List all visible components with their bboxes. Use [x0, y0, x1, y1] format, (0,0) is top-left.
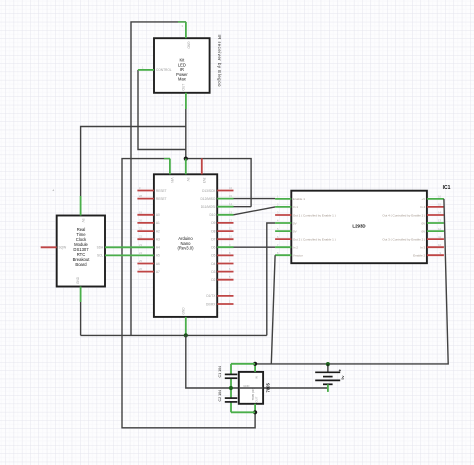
- svg-text:SCL: SCL: [97, 254, 103, 258]
- pin number labels (small, misc): [139, 24, 232, 304]
- svg-text:CONTROL: CONTROL: [156, 68, 172, 72]
- pin In 2: [275, 246, 291, 248]
- svg-text:A4: A4: [156, 246, 160, 250]
- wire L293D Vmotor to battery plus (slight slant): [271, 255, 275, 364]
- L293D right pins: [427, 199, 444, 255]
- node capacitor GND junction dot: [229, 386, 233, 390]
- pin D8: [217, 230, 233, 232]
- svg-text:A1: A1: [156, 221, 160, 225]
- pin 3V3 (Arduino top 3): [201, 158, 203, 174]
- svg-text:OUT: OUT: [255, 396, 259, 402]
- wire IR OUT down to node A: [185, 109, 187, 159]
- pin D4: [217, 263, 233, 265]
- wire 7805 OUT loop to Arduino VIN: [122, 159, 255, 428]
- svg-text:C2 104: C2 104: [218, 390, 222, 402]
- svg-text:Out 2 ( Controlled by Enable 1: Out 2 ( Controlled by Enable 1 ): [293, 237, 336, 241]
- L293D body: [291, 191, 427, 264]
- battery minus lead (green): [327, 384, 329, 392]
- Arduino right pins (unconnected red): [217, 191, 233, 305]
- svg-text:D13/SCK: D13/SCK: [202, 189, 216, 193]
- pin D1/TX: [217, 295, 233, 297]
- capacitor rail (green): [231, 364, 255, 413]
- pin In 1: [275, 206, 291, 208]
- pin RESET: [137, 190, 154, 192]
- svg-text:D6: D6: [211, 246, 215, 250]
- pin D9: [217, 222, 233, 224]
- svg-text:D1/TX: D1/TX: [206, 294, 216, 298]
- svg-text:3V3: 3V3: [202, 178, 206, 184]
- svg-text:D12/MISO: D12/MISO: [201, 197, 216, 201]
- pin A0: [137, 214, 154, 216]
- pin Out 4: [427, 214, 444, 216]
- wire IR GND to left bus: [131, 22, 186, 336]
- Arduino left pins: [137, 191, 154, 272]
- node GND junction dot: [184, 333, 188, 337]
- svg-text:GND: GND: [186, 42, 190, 50]
- pin D11/MOSI: [217, 206, 233, 208]
- svg-text:RESET: RESET: [156, 189, 167, 193]
- pin D5: [217, 254, 233, 256]
- pin D10: [217, 214, 233, 216]
- svg-text:IR receiver by Elegoo: IR receiver by Elegoo: [217, 35, 222, 88]
- L293D right pin labels: [382, 197, 426, 257]
- Arduino Nano body: [154, 174, 217, 317]
- battery plate long 1: [315, 371, 340, 373]
- svg-text:D4: D4: [211, 262, 215, 266]
- svg-text:OUT: OUT: [182, 84, 186, 91]
- wire green end at IR GND corner: [178, 21, 186, 23]
- battery plate long 2: [315, 379, 340, 381]
- Arduino left pin labels: [156, 189, 167, 274]
- pin +V: [427, 198, 444, 200]
- wire IR CONTROL down to junction: [138, 70, 186, 150]
- svg-text:Board: Board: [75, 262, 87, 267]
- pin D12/MISO: [217, 198, 233, 200]
- L293D left pin labels: [293, 197, 336, 257]
- pin D6: [217, 246, 233, 248]
- pin GND (Arduino bottom): [185, 317, 187, 336]
- pin RESET: [137, 198, 154, 200]
- wire RTC GND down to ground bus: [80, 302, 82, 335]
- svg-text:A2: A2: [156, 229, 160, 233]
- svg-text:A0: A0: [156, 213, 160, 217]
- pin 0V c: [427, 222, 444, 224]
- svg-text:In 3: In 3: [420, 246, 425, 250]
- svg-text:Max: Max: [178, 77, 186, 82]
- svg-text:A7: A7: [156, 270, 160, 274]
- wire+pin SCL to Arduino A5: [105, 254, 154, 256]
- pin Out 2: [275, 238, 291, 240]
- svg-text:RESET: RESET: [156, 197, 167, 201]
- pin D3: [217, 271, 233, 273]
- svg-text:Out 1 ( Controlled by Enable 1: Out 1 ( Controlled by Enable 1 ): [293, 213, 336, 217]
- wire GND pass-through over 7805: [239, 387, 263, 389]
- svg-text:7805: 7805: [266, 383, 271, 393]
- ground bus wire (RTC GND to L293D 0V): [81, 334, 267, 336]
- wire D11 to bend: [234, 206, 252, 208]
- pin D13/SCK: [217, 190, 233, 192]
- pin 5V (Arduino top 2): [185, 159, 187, 175]
- svg-text:IC1: IC1: [443, 185, 451, 191]
- svg-text:D11/MOSI: D11/MOSI: [201, 205, 216, 209]
- svg-text:GND: GND: [76, 276, 80, 284]
- wire D10 to L293D In 1 (diagonal): [234, 207, 276, 215]
- pin A3: [137, 238, 154, 240]
- Arduino right pin labels: [201, 189, 217, 306]
- battery plate short 1: [323, 376, 333, 378]
- svg-text:D10: D10: [210, 213, 216, 217]
- svg-text:Enable 2: Enable 2: [413, 254, 425, 258]
- wire+pin SDA to Arduino A4: [105, 246, 154, 248]
- battery BAT1: [315, 362, 345, 392]
- capacitor C1: [225, 374, 238, 378]
- svg-text:L293D: L293D: [352, 224, 365, 229]
- svg-text:D3: D3: [211, 270, 215, 274]
- wire Arduino GND down to 7805 GND and battery minus: [186, 335, 327, 388]
- pin A7: [137, 271, 154, 273]
- svg-text:IN: IN: [255, 376, 259, 379]
- pin In 3: [427, 246, 444, 248]
- pin VIN (Arduino top 1): [169, 159, 171, 175]
- svg-text:SQW: SQW: [59, 246, 67, 250]
- pin OUT (IR bottom): [185, 93, 187, 109]
- svg-text:SDA: SDA: [97, 246, 104, 250]
- Real Time Clock module body: [57, 216, 105, 287]
- pin 0V b: [275, 230, 291, 232]
- pin Enable 1: [275, 198, 291, 200]
- wire D12 to L293D Enable 1: [234, 198, 276, 200]
- IR receiver module body: [154, 38, 210, 93]
- pin SQW (RTC left, unconnected): [41, 246, 57, 248]
- battery plus lead: [327, 364, 329, 372]
- wire 5V rail from RTC to node A: [81, 127, 186, 197]
- svg-text:GND: GND: [181, 307, 185, 315]
- pin Enable 2: [427, 254, 444, 256]
- pin Out 1: [275, 214, 291, 216]
- svg-text:C1 104: C1 104: [218, 366, 222, 378]
- pin Out 3: [427, 238, 444, 240]
- pin GND (RTC bottom): [80, 287, 82, 303]
- pin GND (IR top): [185, 22, 187, 38]
- svg-text:D7: D7: [211, 238, 215, 242]
- capacitor C2: [225, 398, 238, 402]
- wire node A to D11 bend: [186, 159, 251, 207]
- svg-text:D2: D2: [211, 278, 215, 282]
- svg-text:A6: A6: [156, 262, 160, 266]
- pin D0/RX: [217, 303, 233, 305]
- pin 7805 IN (top): [254, 364, 256, 372]
- node battery plus junction dot: [326, 362, 330, 366]
- pin D7: [217, 238, 233, 240]
- svg-text:GND: GND: [243, 384, 249, 388]
- node 7805 IN dot: [253, 362, 257, 366]
- pin In 4: [427, 206, 444, 208]
- pin D2: [217, 279, 233, 281]
- 7805 regulator body: [239, 372, 263, 404]
- svg-text:D0/RX: D0/RX: [206, 302, 216, 306]
- battery plate short 2: [323, 383, 333, 385]
- wire green end near VIN: [164, 158, 170, 160]
- pin 0V a: [275, 222, 291, 224]
- pin 0V d: [427, 230, 444, 232]
- pin 5V (RTC top): [80, 196, 82, 216]
- svg-text:Out 3 ( Controlled by Enable 2: Out 3 ( Controlled by Enable 2 ): [382, 237, 425, 241]
- wire L293D 0V drop: [267, 223, 275, 335]
- pin 7805 OUT (bottom): [254, 404, 256, 413]
- svg-text:Vmotor: Vmotor: [293, 254, 303, 258]
- node A junction dot: [184, 157, 188, 161]
- pin A2: [137, 230, 154, 232]
- wire battery plus rail to L293D +V: [255, 199, 448, 364]
- L293D left pins: [275, 199, 291, 255]
- node 7805 OUT dot: [253, 410, 257, 414]
- svg-text:D5: D5: [211, 254, 215, 258]
- svg-text:A5: A5: [156, 254, 160, 258]
- svg-text:+: +: [339, 368, 342, 373]
- svg-text:In 4: In 4: [420, 205, 425, 209]
- svg-text:A3: A3: [156, 238, 160, 242]
- pin CONTROL (IR left): [138, 69, 154, 71]
- svg-text:Enable 1: Enable 1: [293, 197, 305, 201]
- svg-text:VIN: VIN: [170, 178, 174, 184]
- svg-text:D8: D8: [211, 229, 215, 233]
- svg-text:Out 4 ( Controlled by Enable 2: Out 4 ( Controlled by Enable 2 ): [382, 213, 425, 217]
- svg-text:(Rev3.0): (Rev3.0): [177, 246, 194, 251]
- wire D6 to L293D In 2: [234, 246, 276, 248]
- svg-text:D9: D9: [211, 221, 215, 225]
- pin A6: [137, 263, 154, 265]
- pin A1: [137, 222, 154, 224]
- svg-text:9v: 9v: [340, 376, 345, 380]
- pin Vmotor: [275, 254, 291, 256]
- svg-text:In 2: In 2: [293, 246, 298, 250]
- svg-text:In 1: In 1: [293, 205, 298, 209]
- L293D pin numbers: [277, 195, 279, 255]
